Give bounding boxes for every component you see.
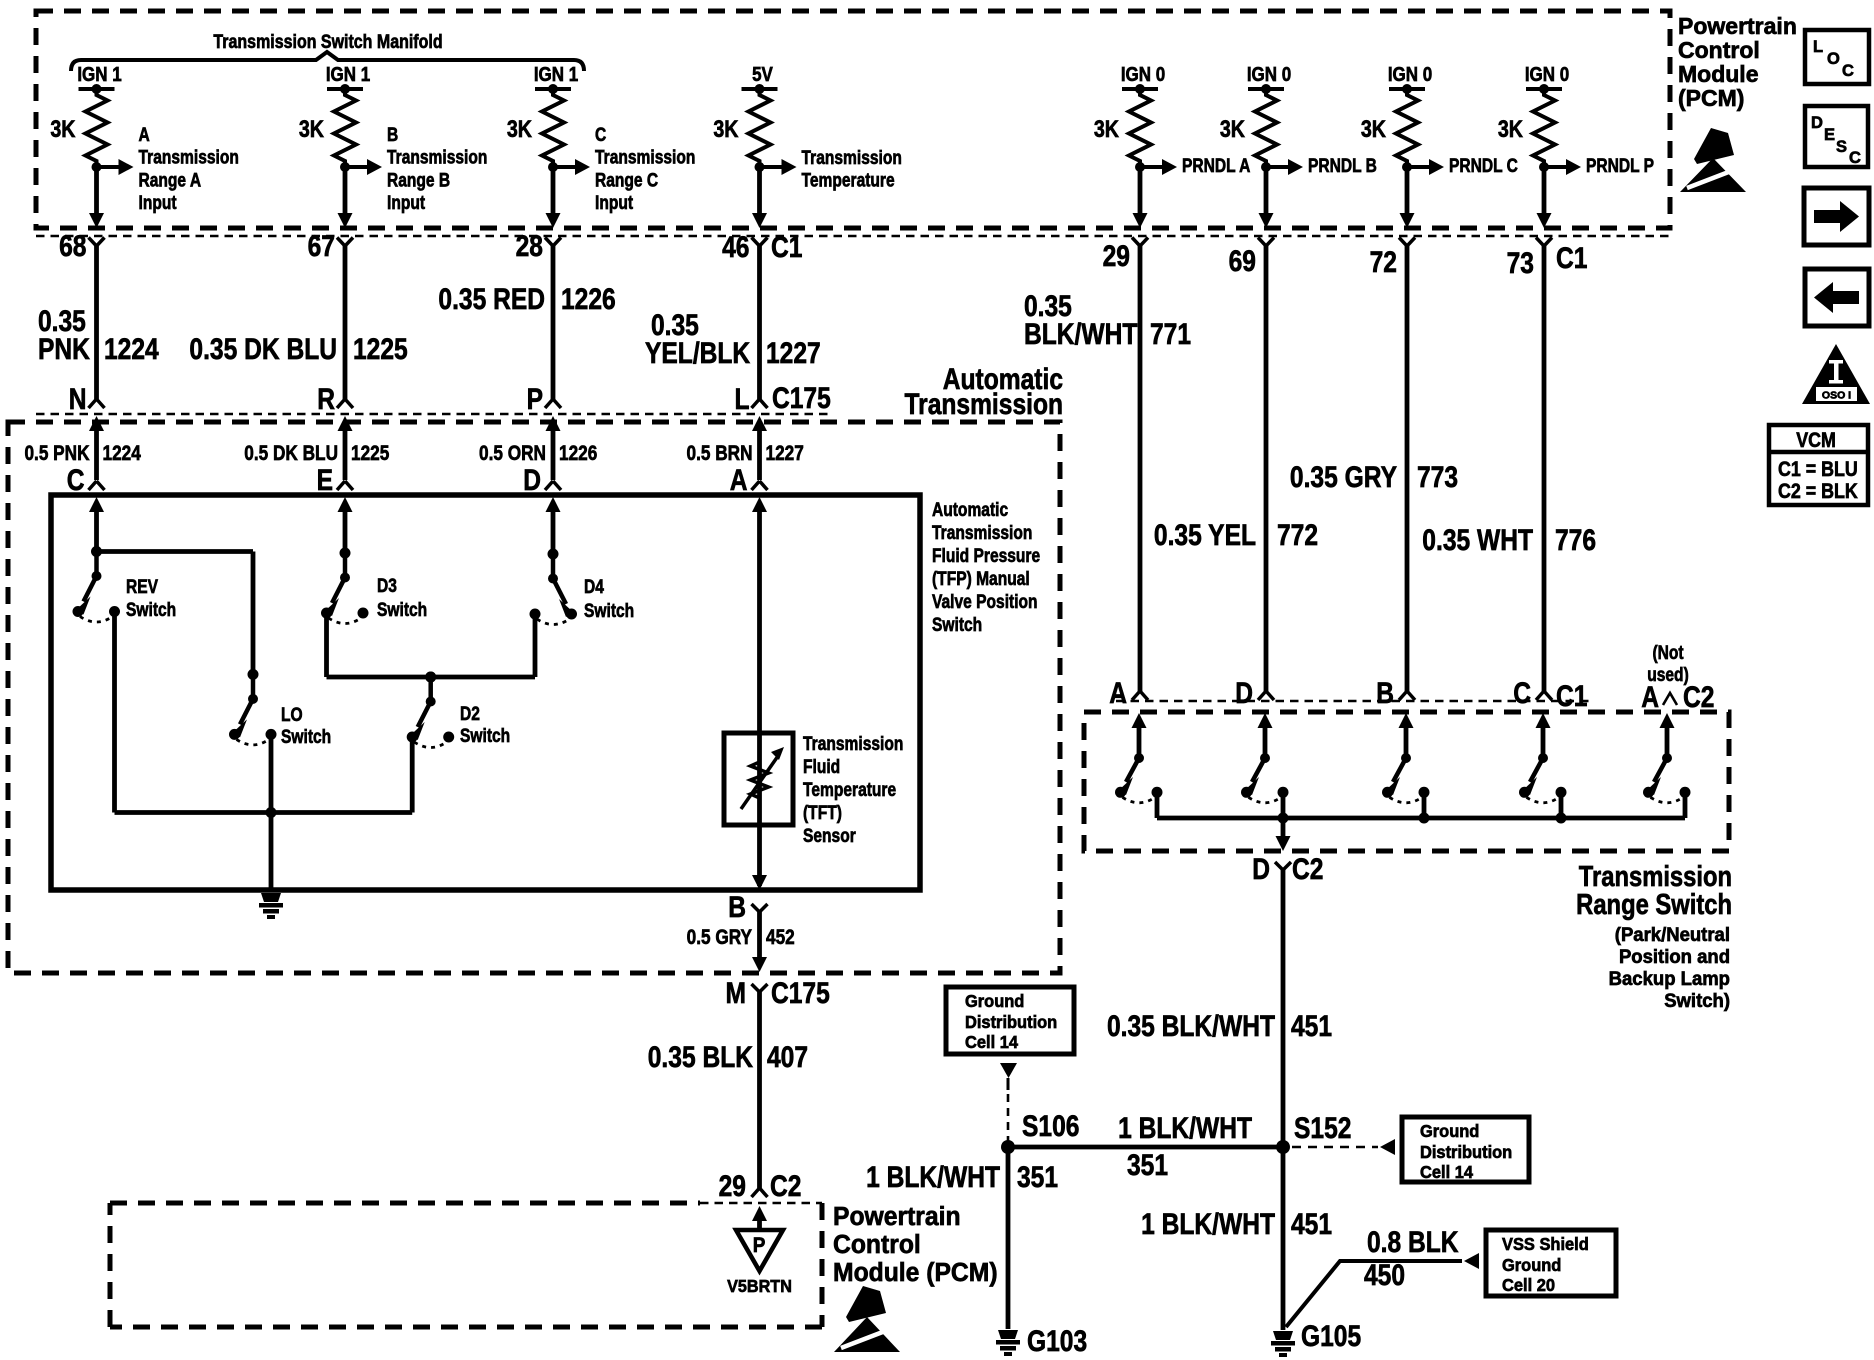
svg-text:IGN 0: IGN 0 [1388,63,1432,86]
ground G103 [998,1330,1018,1339]
pin L (connector C175) [734,382,749,416]
svg-text:Input: Input [595,192,633,214]
svg-text:Cell 14: Cell 14 [1420,1163,1474,1183]
resistor 3K (IGN 1 / B) [334,89,356,167]
svg-text:Distribution: Distribution [965,1013,1057,1033]
svg-text:A: A [1641,680,1659,714]
svg-text:REV: REV [126,576,158,598]
resistor 3K (IGN 1 / C) [542,89,564,167]
wire entering TFP box [89,497,104,512]
value label 0.35 BLK 407 [648,1040,753,1074]
connector C1 dashed line [36,235,1670,238]
svg-text:B: B [1376,676,1394,710]
svg-text:Control: Control [1678,37,1760,63]
svg-text:Module: Module [1678,61,1759,87]
svg-text:E: E [317,463,333,497]
label C175 [772,381,831,415]
junction D output [1278,813,1289,824]
svg-text:3K: 3K [1094,115,1119,142]
svg-text:Transmission: Transmission [904,387,1063,421]
svg-text:C: C [1513,676,1531,710]
svg-text:C175: C175 [771,976,830,1010]
svg-text:72: 72 [1370,245,1397,279]
pin 69 (connector C1) [1258,238,1274,247]
svg-text:Temperature: Temperature [802,169,895,191]
wire range switch common bus [1155,796,1160,818]
node / arrow to PRNDL C [1402,162,1412,172]
wire 0.35 BLK/WHT 771 (pin 29 to A) [1138,246,1143,691]
wire down to PCM pin [1138,167,1143,215]
svg-text:D: D [1252,852,1270,886]
switch D2 [425,672,436,683]
svg-text:IGN 1: IGN 1 [77,63,121,86]
svg-text:Fluid Pressure: Fluid Pressure [932,545,1040,567]
pin 73 (connector C1) [1536,238,1552,247]
TFP Manual Valve Position Switch box [51,495,920,890]
svg-text:O: O [1827,50,1840,68]
wire 0.35 BLK 407 [757,992,762,1188]
svg-text:D2: D2 [460,703,480,725]
svg-text:3K: 3K [299,115,324,142]
svg-text:Transmission: Transmission [802,147,902,169]
power rail IGN 0 [1121,63,1165,86]
svg-text:B: B [387,124,398,146]
value label 0.35 BLK/WHT 771 [1024,289,1072,323]
TFT thermistor symbol [751,755,769,805]
svg-text:(TFT): (TFT) [803,802,842,824]
svg-text:3K: 3K [1361,115,1386,142]
range switch contact A [1132,713,1147,728]
svg-text:PNK: PNK [38,332,90,366]
resistor 3K (IGN 0 / PRNDL B) [1255,89,1277,167]
svg-text:C2: C2 [1292,852,1323,886]
svg-text:PRNDL A: PRNDL A [1182,155,1251,177]
label C1 (right group) [1556,241,1587,275]
reference S152 to Ground Distribution Cell 14 (right) [1292,1146,1378,1149]
svg-text:VSS Shield: VSS Shield [1502,1235,1589,1255]
splice S106 [1001,1140,1015,1154]
off-page arrow down from Ground Distribution [1000,1063,1017,1078]
svg-text:1 BLK/WHT: 1 BLK/WHT [866,1160,1000,1194]
svg-text:776: 776 [1555,523,1596,557]
pin D (connector C2, range switch output) [1275,862,1291,870]
Powertrain Control Module (PCM) dashed boundary box [36,11,1670,228]
svg-text:A: A [1109,676,1127,710]
pin N (connector C175) [69,382,87,416]
svg-text:Ground: Ground [965,992,1024,1012]
label (Not used) A C2 [1652,642,1683,664]
icon LOC box [1805,30,1869,84]
svg-text:PRNDL B: PRNDL B [1308,155,1377,177]
svg-text:C1: C1 [771,230,802,264]
svg-text:Control: Control [833,1230,921,1259]
svg-text:S152: S152 [1294,1111,1351,1145]
wire S106 to G103 1 BLK/WHT 351 [1006,1147,1011,1329]
node / arrow to B Transmission Range B Input [340,162,350,172]
ESD-sensitive symbol (bottom PCM) [846,1286,886,1322]
svg-text:Transmission: Transmission [932,522,1032,544]
ground (TFP switch common) [261,893,281,902]
svg-text:407: 407 [767,1040,808,1074]
value label 0.5 BRN 1227 [687,443,753,466]
wire 0.35 YEL/BLK 1227 (pin 46 to L) [757,246,762,399]
svg-text:1226: 1226 [559,443,597,466]
svg-text:Range A: Range A [139,169,202,191]
svg-text:73: 73 [1507,246,1534,280]
pin C (TFP switch) [67,463,85,497]
wire 0.35 BLK/WHT 451 (to S152) [1281,870,1286,1147]
range switch contact D [1258,713,1273,728]
svg-text:452: 452 [766,927,795,950]
svg-text:29: 29 [719,1169,746,1203]
svg-text:PRNDL P: PRNDL P [1586,155,1654,177]
svg-text:D: D [523,463,541,497]
svg-text:1227: 1227 [766,336,821,370]
svg-text:Position and: Position and [1619,947,1730,969]
wire down to PCM pin [343,167,348,215]
wire down to PCM pin [94,167,99,215]
svg-text:Module (PCM): Module (PCM) [833,1258,998,1287]
pin 67 (connector C1) [337,238,353,247]
power rail IGN 0 [1388,63,1432,86]
svg-text:0.35 YEL: 0.35 YEL [1154,518,1256,552]
junction node to D2 switch [425,672,436,683]
svg-text:Switch): Switch) [1664,991,1730,1013]
wire 0.5 GRY 452 [757,912,762,958]
svg-text:B: B [728,890,746,924]
svg-text:Transmission Switch Manifold: Transmission Switch Manifold [213,31,442,53]
svg-text:Cell 20: Cell 20 [1502,1276,1555,1296]
label (Park/Neutral Position and Backup Lamp Switch) [1615,925,1730,947]
junction C output [1556,813,1567,824]
svg-text:BLK/WHT: BLK/WHT [1024,317,1138,351]
svg-text:68: 68 [59,229,86,263]
wire down to PCM pin [1405,167,1410,215]
switch LO [248,669,259,680]
power rail IGN 1 [77,63,121,86]
svg-text:(PCM): (PCM) [1678,85,1744,111]
wire D4 output down [533,618,538,677]
svg-text:OSO I: OSO I [1822,390,1851,402]
label Transmission Fluid Temperature (TFT) Sensor [803,733,903,755]
label Automatic Transmission [943,362,1063,396]
label C1 (range switch) [1556,679,1587,713]
node / arrow to PRNDL B [1261,162,1271,172]
junction B output [1419,813,1430,824]
svg-text:Automatic: Automatic [932,499,1008,521]
svg-text:28: 28 [516,229,543,263]
svg-text:3K: 3K [713,115,738,142]
svg-text:Transmission: Transmission [803,733,903,755]
svg-text:Switch: Switch [281,726,331,748]
svg-text:Switch: Switch [126,599,176,621]
svg-text:A: A [730,463,748,497]
resistor 3K (5V / Transmission) [749,89,771,167]
value label 0.35 PNK 1224 [38,304,86,338]
svg-text:1224: 1224 [104,332,159,366]
Transmission Range Switch dashed boundary box [1084,712,1729,851]
value label 0.5 GRY 452 [687,927,753,950]
pin D (range switch connector) [1235,676,1253,710]
wire branch C node to LO switch [97,549,254,554]
value label 0.5 ORN 1226 [479,443,546,466]
svg-text:M: M [726,976,746,1010]
svg-text:3K: 3K [1220,115,1245,142]
label Transmission Switch Manifold [213,31,442,53]
svg-text:Ground: Ground [1502,1256,1561,1276]
svg-text:771: 771 [1150,317,1191,351]
node / arrow to C Transmission Range C Input [548,162,558,172]
svg-text:P: P [753,1234,766,1257]
svg-text:351: 351 [1017,1160,1058,1194]
svg-text:D3: D3 [377,575,397,597]
svg-text:N: N [69,382,87,416]
svg-text:3K: 3K [507,115,532,142]
svg-text:C1: C1 [1556,679,1587,713]
wire 0.5 ORN 1226 into TFP pin D [546,416,561,431]
svg-text:1 BLK/WHT: 1 BLK/WHT [1141,1207,1275,1241]
svg-text:R: R [317,382,335,416]
VCM connector color legend box [1769,425,1868,505]
svg-text:E: E [1824,126,1835,144]
wire D3/D4 output bus [327,675,536,680]
svg-text:1227: 1227 [766,443,804,466]
pin 28 (connector C1) [545,238,561,247]
svg-text:D4: D4 [584,576,604,598]
value label 0.35 DK BLU 1225 [189,332,337,366]
wire 0.35 GRY 773 (pin 72 to B) [1405,246,1410,691]
svg-text:1225: 1225 [353,332,408,366]
pin 72 (connector C1) [1399,238,1415,247]
svg-text:3K: 3K [50,115,75,142]
node / arrow to A Transmission Range A Input [92,162,102,172]
wire 0.35 YEL 772 (pin 69 to D) [1264,246,1269,691]
label Automatic Transmission Fluid Pressure (TFP) Manual Valve Position Switch [932,499,1008,521]
svg-text:Valve Position: Valve Position [932,591,1038,613]
pin A (TFP switch) [730,463,748,497]
Automatic Transmission dashed boundary box [8,422,1060,973]
pin 68 (connector C1) [89,238,105,247]
Ground Distribution Cell 14 reference box (top) [946,987,1074,1054]
svg-text:Distribution: Distribution [1420,1143,1512,1163]
svg-text:Switch: Switch [932,614,982,636]
svg-text:A: A [139,124,151,146]
svg-text:Switch: Switch [460,725,510,747]
svg-text:IGN 0: IGN 0 [1247,63,1291,86]
wire 0.35 DK BLU 1225 (pin 67 to R) [343,246,348,399]
svg-text:Backup Lamp: Backup Lamp [1609,969,1730,991]
pin 29 (connector C1) [1132,238,1148,247]
icon right-arrow box [1804,188,1869,245]
ESD-sensitive symbol (top PCM) [1694,128,1734,164]
svg-text:Input: Input [387,192,425,214]
value label 0.35 YEL 772 [1154,518,1256,552]
wire S152 to G105 1 BLK/WHT 451 [1281,1147,1286,1330]
svg-text:Powertrain: Powertrain [833,1202,961,1231]
svg-text:773: 773 [1417,460,1458,494]
svg-text:D: D [1811,114,1823,132]
svg-text:(Not: (Not [1652,642,1683,664]
svg-text:5V: 5V [752,63,773,86]
wire D2 output down [410,741,415,813]
svg-text:69: 69 [1229,244,1256,278]
svg-text:0.35 BLK/WHT: 0.35 BLK/WHT [1107,1009,1275,1043]
svg-text:LO: LO [281,704,303,726]
wire down to PCM pin [757,167,762,215]
pin B (range switch connector) [1376,676,1394,710]
switch D3 [340,548,351,559]
svg-text:C175: C175 [772,381,831,415]
svg-text:C1 = BLU: C1 = BLU [1778,458,1858,482]
value label 0.35 YEL/BLK 1227 [651,308,699,342]
pin R (connector C175) [317,382,335,416]
label Powertrain Control Module (PCM) top right [1678,13,1797,39]
svg-text:29: 29 [1103,239,1130,273]
icon left-arrow box [1805,269,1869,326]
svg-text:Sensor: Sensor [803,825,856,847]
wire 0.35 PNK 1224 (pin 68 to N) [94,246,99,399]
svg-text:IGN 1: IGN 1 [534,63,578,86]
wire 0.8 BLK 450 to VSS shield ground [1286,1261,1462,1327]
svg-text:Fluid: Fluid [803,756,840,778]
svg-text:Ground: Ground [1420,1122,1479,1142]
wire D3 output down [324,617,329,677]
range switch contact not used [1660,713,1675,728]
VSS Shield Ground Cell 20 reference box [1486,1230,1616,1296]
svg-text:Switch: Switch [584,600,634,622]
svg-text:0.35 DK BLU: 0.35 DK BLU [189,332,337,366]
node / arrow to PRNDL P [1539,162,1549,172]
pin M (connector C175) [726,976,746,1010]
svg-text:Powertrain: Powertrain [1678,13,1797,39]
brace over manifold resistors [71,52,584,71]
svg-text:351: 351 [1127,1148,1168,1182]
svg-text:C: C [1842,62,1854,80]
switch REV [91,546,102,557]
svg-text:C: C [595,124,607,146]
value label 0.35 RED 1226 [438,282,545,316]
pin E (TFP switch) [317,463,333,497]
svg-text:IGN 1: IGN 1 [326,63,370,86]
pin 46 (connector C1) [752,238,768,247]
svg-text:YEL/BLK: YEL/BLK [645,336,750,370]
connector C1 dashed line (range switch) [1116,700,1592,703]
svg-text:Temperature: Temperature [803,779,896,801]
switch D4 [548,549,559,560]
net V5BRTN triangle symbol [736,1230,783,1271]
svg-text:P: P [527,382,543,416]
svg-text:0.35 WHT: 0.35 WHT [1422,523,1533,557]
svg-text:772: 772 [1277,518,1318,552]
connector C175 dashed line [36,413,830,416]
svg-text:S106: S106 [1022,1109,1079,1143]
value label 0.8 BLK 450 [1367,1225,1459,1259]
svg-text:C2: C2 [770,1169,801,1203]
wire 0.35 WHT 776 (pin 73 to C) [1542,246,1547,691]
wire entering TFP box [546,497,561,512]
resistor 3K (IGN 1 / A) [86,89,108,167]
splice S152 [1276,1140,1290,1154]
value label 0.35 WHT 776 [1422,523,1533,557]
wire S106 to S152 1 BLK/WHT 351 [1008,1145,1283,1150]
wire into PCM to V5BRTN [752,1206,767,1221]
wire to ground [269,813,274,893]
icon DESC box [1805,106,1868,167]
svg-text:C1: C1 [1556,241,1587,275]
range switch contact C [1536,713,1551,728]
svg-text:Range C: Range C [595,169,659,191]
pin 29 (connector C2) [752,1188,768,1197]
svg-text:1226: 1226 [561,282,616,316]
svg-text:Transmission: Transmission [139,146,239,168]
svg-text:Transmission: Transmission [387,146,487,168]
wire LO output down [269,738,274,812]
svg-text:C: C [1849,149,1861,167]
label Powertrain Control Module (PCM) [833,1202,961,1231]
wire 0.5 BRN 1227 into TFP pin A [752,416,767,431]
svg-text:1224: 1224 [103,443,142,466]
pin P (connector C175) [527,382,543,416]
label C1 (left group) [771,230,802,264]
svg-text:Cell 14: Cell 14 [965,1033,1019,1053]
svg-text:1225: 1225 [351,443,390,466]
svg-text:1 BLK/WHT: 1 BLK/WHT [1118,1111,1252,1145]
wire REV output down [112,616,117,813]
svg-text:Range Switch: Range Switch [1576,888,1732,921]
wire entering TFP box [752,497,767,512]
wire 0.35 RED 1226 (pin 28 to P) [551,246,556,399]
Powertrain Control Module (PCM) dashed box (bottom) [110,1201,700,1206]
TFT sensor box [724,733,793,825]
node / arrow to Transmission Temperature [755,162,765,172]
svg-text:Switch: Switch [377,599,427,621]
svg-text:(TFP) Manual: (TFP) Manual [932,568,1030,590]
svg-text:D: D [1235,676,1253,710]
label Transmission Range Switch [1579,860,1732,893]
svg-text:0.5 GRY: 0.5 GRY [687,927,753,950]
pin C (range switch connector) [1513,676,1531,710]
svg-text:C: C [67,463,85,497]
svg-text:V5BRTN: V5BRTN [727,1276,792,1296]
svg-text:450: 450 [1364,1258,1405,1292]
pin D (TFP switch) [523,463,541,497]
svg-text:C2 = BLK: C2 = BLK [1778,480,1858,504]
power rail IGN 0 [1525,63,1569,86]
svg-text:3K: 3K [1498,115,1523,142]
svg-text:IGN 0: IGN 0 [1525,63,1569,86]
wire down to PCM pin [551,167,556,215]
svg-text:451: 451 [1291,1207,1332,1241]
resistor 3K (IGN 0 / PRNDL C) [1396,89,1418,167]
svg-text:L: L [1813,38,1823,56]
power rail IGN 0 [1247,63,1291,86]
svg-text:0.8 BLK: 0.8 BLK [1367,1225,1459,1259]
pin B (TFP switch) [752,904,768,912]
wire 0.5 DK BLU 1225 into TFP pin E [338,416,353,431]
range switch contact B [1399,713,1414,728]
svg-text:VCM: VCM [1796,429,1836,453]
svg-text:0.35 GRY: 0.35 GRY [1290,460,1397,494]
svg-text:Range B: Range B [387,169,450,191]
wire common output down [1281,818,1286,838]
power rail IGN 1 [326,63,370,86]
svg-text:0.35 BLK: 0.35 BLK [648,1040,753,1074]
value label 0.35 BLK/WHT 451 [1107,1009,1275,1043]
value label 0.5 PNK 1224 [24,443,89,466]
svg-text:G103: G103 [1027,1324,1087,1358]
svg-text:IGN 0: IGN 0 [1121,63,1165,86]
svg-text:S: S [1836,138,1847,156]
